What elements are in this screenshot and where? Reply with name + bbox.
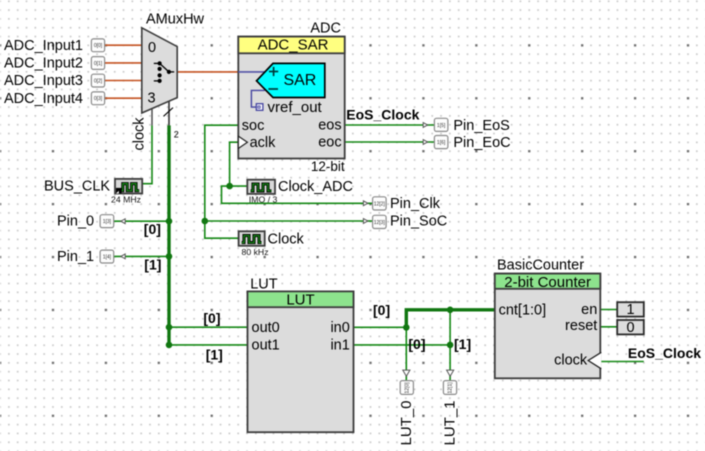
svg-text:1[4]: 1[4] <box>103 255 112 261</box>
svg-text:in0: in0 <box>330 320 349 336</box>
svg-text:Pin_EoS: Pin_EoS <box>453 118 509 134</box>
svg-text:[1]: [1] <box>144 256 161 272</box>
svg-text:BasicCounter: BasicCounter <box>497 257 584 273</box>
svg-text:Pin_1: Pin_1 <box>57 249 94 265</box>
svg-text:[0]: [0] <box>203 310 220 326</box>
svg-text:in1: in1 <box>330 338 349 354</box>
svg-text:[1]: [1] <box>454 336 471 352</box>
svg-text:80 kHz: 80 kHz <box>242 247 269 257</box>
svg-text:out1: out1 <box>252 338 280 354</box>
svg-text:0[1]: 0[1] <box>94 61 103 67</box>
svg-text:2-bit Counter: 2-bit Counter <box>504 274 591 291</box>
svg-text:Pin_0: Pin_0 <box>57 214 94 230</box>
svg-text:en: en <box>581 302 597 318</box>
svg-text:ADC_Input2: ADC_Input2 <box>4 56 83 72</box>
svg-text:ADC_Input4: ADC_Input4 <box>4 91 83 107</box>
svg-text:0[2]: 0[2] <box>94 79 103 85</box>
svg-text:[0]: [0] <box>144 221 161 237</box>
svg-text:1[3]: 1[3] <box>103 219 112 225</box>
svg-text:EoS_Clock: EoS_Clock <box>346 107 419 123</box>
svg-text:Clock: Clock <box>268 231 305 247</box>
svg-text:out0: out0 <box>252 320 280 336</box>
svg-text:LUT: LUT <box>286 292 314 309</box>
svg-text:IMO / 3: IMO / 3 <box>249 194 278 204</box>
svg-text:cnt[1:0]: cnt[1:0] <box>499 303 547 319</box>
svg-text:2: 2 <box>174 130 179 140</box>
svg-text:BUS_CLK: BUS_CLK <box>44 179 110 195</box>
svg-text:ADC_Input1: ADC_Input1 <box>4 38 83 54</box>
svg-text:Pin_Clk: Pin_Clk <box>390 196 441 212</box>
svg-text:[0]: [0] <box>408 336 425 352</box>
svg-text:Pin_SoC: Pin_SoC <box>390 214 447 230</box>
svg-text:LUT: LUT <box>250 277 278 293</box>
svg-text:ADC_Input3: ADC_Input3 <box>4 73 83 89</box>
svg-text:soc: soc <box>242 118 265 134</box>
svg-text:1[5]: 1[5] <box>437 123 446 129</box>
svg-text:eoc: eoc <box>318 135 341 151</box>
svg-text:reset: reset <box>565 318 597 334</box>
svg-text:3: 3 <box>148 90 156 106</box>
svg-text:LUT_0: LUT_0 <box>398 400 415 445</box>
svg-text:clock: clock <box>554 353 588 369</box>
svg-text:0[0]: 0[0] <box>94 43 103 49</box>
svg-text:eos: eos <box>318 118 341 134</box>
svg-text:Clock_ADC: Clock_ADC <box>278 179 353 195</box>
svg-text:aclk: aclk <box>250 135 277 151</box>
svg-text:ADC: ADC <box>310 20 341 36</box>
svg-text:AMuxHw: AMuxHw <box>146 12 205 28</box>
svg-text:[1]: [1] <box>206 347 223 363</box>
svg-text:LUT_1: LUT_1 <box>442 400 459 445</box>
svg-text:Pin_EoC: Pin_EoC <box>453 135 510 151</box>
svg-text:12[0]: 12[0] <box>405 382 411 394</box>
svg-text:[0]: [0] <box>373 302 390 318</box>
svg-text:vref_out: vref_out <box>268 99 323 116</box>
svg-text:12[1]: 12[1] <box>448 382 454 394</box>
svg-text:0: 0 <box>148 40 156 56</box>
svg-text:12[2]: 12[2] <box>374 201 386 207</box>
svg-text:ADC_SAR: ADC_SAR <box>258 37 329 54</box>
svg-text:1: 1 <box>626 302 634 318</box>
svg-text:1[6]: 1[6] <box>437 140 446 146</box>
svg-text:0[3]: 0[3] <box>94 96 103 102</box>
svg-text:0: 0 <box>626 320 634 336</box>
svg-text:12[3]: 12[3] <box>374 220 386 226</box>
svg-text:SAR: SAR <box>283 72 316 89</box>
svg-text:24 MHz: 24 MHz <box>111 194 141 204</box>
svg-text:12-bit: 12-bit <box>311 159 345 174</box>
svg-text:clock: clock <box>132 117 148 151</box>
svg-text:EoS_Clock: EoS_Clock <box>628 345 701 361</box>
